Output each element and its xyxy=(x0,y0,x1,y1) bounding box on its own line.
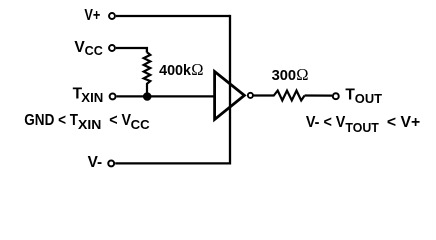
wire vertical rail V+ to V- xyxy=(229,15,231,165)
op-amp buffer U1 (inverter triangle) xyxy=(215,72,245,120)
junction dot node TXIN/R1 xyxy=(143,92,152,101)
terminal TXIN xyxy=(110,93,116,99)
inverter output bubble xyxy=(248,93,253,98)
svg-text:V+: V+ xyxy=(84,7,100,24)
svg-text:V- < V: V- < V xyxy=(306,114,346,131)
svg-text:Ω: Ω xyxy=(191,60,203,79)
wire TXIN to buffer input xyxy=(117,95,215,97)
wire V- horizontal xyxy=(115,162,231,164)
terminal TOUT xyxy=(333,93,339,99)
svg-text:< V+: < V+ xyxy=(387,114,420,131)
wire bubble to R2 xyxy=(253,94,274,96)
wire VCC to resistor top xyxy=(116,48,147,53)
terminal V+ xyxy=(109,13,115,19)
svg-text:TOUT: TOUT xyxy=(345,121,379,135)
svg-text:300: 300 xyxy=(272,67,297,84)
svg-text:400k: 400k xyxy=(159,62,191,79)
svg-text:OUT: OUT xyxy=(355,92,383,106)
resistor R2 300 (horizontal zigzag) xyxy=(274,91,305,101)
wire V+ horizontal xyxy=(116,15,230,17)
svg-text:Ω: Ω xyxy=(296,65,308,84)
terminal VCC xyxy=(109,45,115,51)
svg-text:CC: CC xyxy=(85,44,103,58)
svg-text:GND < T: GND < T xyxy=(24,112,78,129)
svg-text:CC: CC xyxy=(131,118,150,132)
resistor R1 400k (vertical zigzag) xyxy=(144,52,151,96)
terminal V- xyxy=(108,160,114,166)
svg-text:V-: V- xyxy=(88,154,103,171)
svg-text:XIN: XIN xyxy=(81,91,103,105)
wire R2 to TOUT terminal xyxy=(305,94,332,96)
svg-text:XIN: XIN xyxy=(78,118,101,132)
svg-text:< V: < V xyxy=(109,112,131,129)
